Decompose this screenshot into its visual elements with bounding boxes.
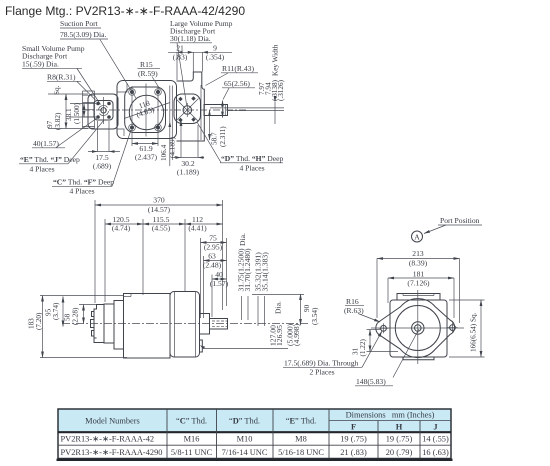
svg-text:(R.63): (R.63) bbox=[344, 306, 364, 315]
svg-text:(4.74): (4.74) bbox=[112, 224, 131, 233]
svg-text:(2.311): (2.311) bbox=[219, 126, 227, 147]
svg-text:(1.22): (1.22) bbox=[359, 339, 367, 357]
left port flange bbox=[91, 305, 105, 343]
svg-text:(2.437): (2.437) bbox=[135, 153, 158, 162]
mounting flange outline bbox=[376, 299, 455, 358]
svg-text:15(.59) Dia.: 15(.59) Dia. bbox=[22, 60, 59, 69]
svg-text:19 (.75): 19 (.75) bbox=[340, 435, 367, 444]
svg-text:“E” Thd. “J” Deep: “E” Thd. “J” Deep bbox=[20, 155, 80, 164]
svg-text:(7.20): (7.20) bbox=[35, 312, 43, 330]
svg-text:4 Places: 4 Places bbox=[69, 187, 94, 196]
wire centerline bbox=[62, 323, 308, 325]
svg-text:(.689): (.689) bbox=[93, 162, 112, 171]
key width dim bbox=[274, 102, 276, 124]
plate centerlines bbox=[131, 86, 133, 133]
flange bolts diamonds bbox=[178, 97, 182, 101]
label 148 bbox=[393, 329, 419, 378]
node A bbox=[412, 231, 423, 242]
small volume flange plate bbox=[94, 101, 113, 121]
svg-text:M8: M8 bbox=[295, 435, 307, 444]
svg-text:(1.500): (1.500) bbox=[73, 102, 81, 124]
svg-text:21: 21 bbox=[176, 44, 184, 53]
svg-text:2 Places: 2 Places bbox=[309, 368, 334, 377]
right flange plate bbox=[174, 94, 201, 124]
svg-text:Dia.: Dia. bbox=[274, 301, 283, 314]
svg-text:(4.998): (4.998) bbox=[292, 323, 301, 346]
head block bbox=[114, 301, 124, 350]
svg-text:(14.57): (14.57) bbox=[148, 205, 171, 214]
cartridge block bbox=[170, 292, 200, 358]
svg-text:(2.48): (2.48) bbox=[203, 261, 222, 270]
svg-text:370: 370 bbox=[153, 196, 165, 205]
pilot circle bbox=[395, 306, 440, 351]
svg-text:38.1: 38.1 bbox=[65, 108, 73, 121]
svg-text:5/8-11 UNC: 5/8-11 UNC bbox=[171, 448, 213, 457]
svg-text:(8.39): (8.39) bbox=[409, 259, 428, 268]
svg-text:H: H bbox=[396, 423, 403, 432]
svg-text:40: 40 bbox=[215, 270, 223, 279]
top boss bbox=[397, 294, 440, 301]
svg-text:4 Places: 4 Places bbox=[29, 165, 54, 174]
shaft hub bbox=[200, 314, 210, 335]
svg-text:(1.57): (1.57) bbox=[210, 279, 229, 288]
svg-text:F: F bbox=[351, 423, 356, 432]
svg-text:35.14(1.383): 35.14(1.383) bbox=[261, 252, 270, 292]
shaft bbox=[210, 319, 228, 330]
svg-text:(2.28): (2.28) bbox=[72, 307, 80, 325]
svg-text:(.354): (.354) bbox=[206, 53, 225, 62]
svg-text:40(1.57): 40(1.57) bbox=[33, 139, 59, 148]
outer border bbox=[58, 409, 451, 459]
svg-text:148(5.83): 148(5.83) bbox=[356, 377, 386, 386]
svg-text:106.4: 106.4 bbox=[160, 144, 168, 161]
svg-text:“E” Thd.: “E” Thd. bbox=[286, 417, 317, 426]
svg-text:(2.95): (2.95) bbox=[204, 243, 223, 252]
svg-text:30(1.18) Dia.: 30(1.18) Dia. bbox=[170, 34, 211, 43]
suction port circle bbox=[129, 95, 163, 129]
svg-text:Model Numbers: Model Numbers bbox=[85, 417, 140, 426]
svg-text:R11(R.43): R11(R.43) bbox=[222, 64, 254, 73]
header bottom thick bbox=[58, 431, 451, 433]
svg-text:213: 213 bbox=[412, 249, 424, 258]
wire centerline horizontal bbox=[83, 109, 248, 111]
valve plate octagon bbox=[125, 87, 166, 133]
bolt U3 bbox=[129, 124, 136, 131]
svg-text:(.83): (.83) bbox=[173, 53, 188, 62]
svg-text:63: 63 bbox=[208, 252, 216, 261]
svg-text:(3.54): (3.54) bbox=[311, 307, 319, 325]
ear hole right bbox=[450, 325, 456, 331]
svg-text:(3.82): (3.82) bbox=[54, 112, 62, 130]
svg-text:9: 9 bbox=[213, 44, 217, 53]
shaft bbox=[204, 105, 228, 116]
svg-text:75: 75 bbox=[209, 234, 217, 243]
svg-text:A: A bbox=[414, 233, 420, 242]
square body bbox=[390, 300, 447, 357]
svg-text:166(6.54) Sq.: 166(6.54) Sq. bbox=[470, 312, 478, 352]
svg-text:(.3126): (.3126) bbox=[277, 79, 285, 101]
header fill bbox=[58, 409, 451, 432]
svg-text:17.5(.689) Dia. Through: 17.5(.689) Dia. Through bbox=[284, 359, 359, 368]
svg-text:Suction Port: Suction Port bbox=[60, 19, 99, 28]
svg-text:PV2R13-∗-∗-F-RAAA-4290: PV2R13-∗-∗-F-RAAA-4290 bbox=[61, 448, 163, 457]
svg-text:“D” Thd. “H” Deep: “D” Thd. “H” Deep bbox=[221, 154, 284, 163]
svg-text:31.70(1.2480): 31.70(1.2480) bbox=[243, 248, 252, 291]
svg-text:126.95: 126.95 bbox=[275, 325, 284, 346]
svg-text:(R.59): (R.59) bbox=[138, 69, 158, 78]
svg-text:(1.189): (1.189) bbox=[177, 168, 200, 177]
svg-text:78.5(3.09) Dia.: 78.5(3.09) Dia. bbox=[60, 30, 106, 39]
svg-text:19 (.75): 19 (.75) bbox=[386, 435, 413, 444]
svg-text:(4.55): (4.55) bbox=[152, 224, 171, 233]
bolt U4 bbox=[155, 124, 162, 131]
svg-text:7/16-14 UNC: 7/16-14 UNC bbox=[222, 448, 268, 457]
discharge port circle bbox=[183, 106, 192, 115]
svg-text:5/16-18 UNC: 5/16-18 UNC bbox=[278, 448, 324, 457]
svg-text:PV2R13-∗-∗-F-RAAA-42: PV2R13-∗-∗-F-RAAA-42 bbox=[61, 435, 155, 444]
small port circle bbox=[101, 108, 106, 113]
svg-text:21 (.83): 21 (.83) bbox=[340, 448, 367, 457]
svg-text:M10: M10 bbox=[237, 435, 253, 444]
main body block bbox=[124, 294, 171, 359]
svg-text:4 Places: 4 Places bbox=[239, 164, 264, 173]
svg-text:R16: R16 bbox=[346, 297, 359, 306]
svg-text:“C” Thd. “F” Deep: “C” Thd. “F” Deep bbox=[53, 178, 114, 187]
ear hole left bbox=[381, 325, 387, 331]
svg-text:14 (.55): 14 (.55) bbox=[422, 435, 449, 444]
center hole bbox=[412, 322, 424, 334]
svg-text:R15: R15 bbox=[140, 60, 153, 69]
svg-text:“C” Thd.: “C” Thd. bbox=[176, 417, 207, 426]
svg-text:Flange Mtg.: PV2R13-∗-∗-F-RAAA: Flange Mtg.: PV2R13-∗-∗-F-RAAA-42/4290 bbox=[5, 4, 245, 18]
bolt U2 bbox=[155, 89, 162, 96]
right body block bbox=[177, 72, 205, 141]
crosshair bbox=[371, 327, 464, 329]
svg-text:97: 97 bbox=[46, 120, 54, 128]
bolt U1 bbox=[129, 89, 136, 96]
svg-text:J: J bbox=[433, 423, 437, 432]
svg-text:58.7: 58.7 bbox=[211, 132, 219, 145]
svg-text:R8(R.31): R8(R.31) bbox=[47, 73, 76, 82]
svg-text:65(2.56): 65(2.56) bbox=[224, 79, 250, 88]
svg-text:M16: M16 bbox=[184, 435, 200, 444]
dimensions sub line bbox=[329, 420, 451, 422]
svg-text:Sq.: Sq. bbox=[53, 85, 61, 95]
svg-text:Dia.: Dia. bbox=[238, 233, 247, 246]
adapter block bbox=[104, 304, 114, 343]
row line bbox=[58, 444, 451, 446]
rear cover block bbox=[83, 91, 95, 128]
svg-text:Dimensions mm (Inches): Dimensions mm (Inches) bbox=[346, 411, 435, 420]
svg-text:Port Position: Port Position bbox=[440, 216, 480, 225]
svg-text:(7.126): (7.126) bbox=[407, 279, 430, 288]
main body bbox=[117, 81, 177, 139]
svg-text:“D” Thd.: “D” Thd. bbox=[229, 417, 260, 426]
svg-text:181: 181 bbox=[413, 270, 425, 279]
svg-text:(3.74): (3.74) bbox=[52, 302, 60, 320]
svg-text:(4.41): (4.41) bbox=[188, 224, 207, 233]
svg-text:58: 58 bbox=[64, 313, 72, 321]
svg-text:20 (.79): 20 (.79) bbox=[386, 448, 413, 457]
bolt holes small flange bbox=[96, 102, 100, 106]
col lines bbox=[166, 409, 168, 459]
svg-text:Key Width: Key Width bbox=[272, 44, 280, 76]
svg-text:16 (.63): 16 (.63) bbox=[422, 448, 449, 457]
svg-text:90: 90 bbox=[303, 304, 311, 312]
